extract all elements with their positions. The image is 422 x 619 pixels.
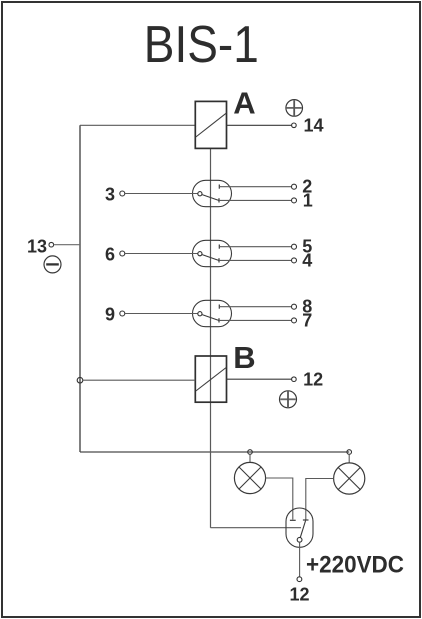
wire: relay A to terminal 14	[227, 124, 292, 126]
wire: junction to relay B coil	[83, 379, 196, 381]
wire: link horizontal into bottom switch	[211, 527, 302, 529]
minus polarity symbol	[44, 256, 61, 273]
wire: bus to relay A coil left	[80, 124, 196, 126]
contact tick upper S1	[218, 185, 220, 189]
svg-text:3: 3	[105, 184, 115, 204]
terminal 5	[292, 244, 297, 249]
lever S3	[202, 315, 219, 321]
lamp L2	[334, 463, 365, 494]
switch contact row 2 (6-5/4)	[105, 237, 312, 271]
svg-text:12: 12	[289, 585, 309, 605]
relay coil A	[195, 101, 226, 148]
wire: 3 to pole	[125, 193, 198, 195]
terminal 7	[292, 318, 297, 323]
lever S4	[300, 521, 305, 538]
svg-text:+220VDC: +220VDC	[306, 552, 404, 579]
wire: 9 to pole	[125, 313, 198, 315]
svg-text:A: A	[233, 86, 255, 121]
terminal 12 (supply)	[297, 577, 302, 582]
svg-text:B: B	[233, 340, 255, 375]
svg-text:12: 12	[303, 370, 323, 390]
wire: junction to lamp 1	[249, 454, 251, 462]
svg-text:14: 14	[304, 116, 324, 136]
contact tick lower S2	[218, 258, 220, 262]
svg-text:BIS-1: BIS-1	[144, 16, 259, 74]
svg-text:7: 7	[302, 310, 312, 330]
wire: upper contact to terminal 8	[219, 306, 291, 308]
node: lamp 2 junction	[347, 450, 352, 455]
wire: upper contact to terminal 5	[219, 246, 291, 248]
terminal 4	[292, 258, 297, 263]
terminal 1	[292, 198, 297, 203]
wire: lamp 2 to bottom switch right contact	[306, 479, 334, 520]
contact tick lower S3	[218, 318, 220, 322]
wire: relay B to terminal 12	[227, 378, 292, 380]
pushbutton switch S4	[286, 508, 313, 547]
contact tick right S4	[303, 519, 309, 521]
svg-text:13: 13	[27, 236, 47, 256]
svg-text:4: 4	[302, 250, 312, 270]
contact tick upper S3	[218, 305, 220, 309]
lever S1	[202, 195, 219, 201]
wire: pole to +220VDC terminal	[299, 542, 301, 577]
wire: terminal 13 to bus	[54, 244, 80, 246]
node: lamp 1 junction	[248, 450, 253, 455]
svg-text:9: 9	[105, 304, 115, 324]
lamp L1	[234, 462, 265, 493]
terminal 12	[292, 377, 297, 382]
pole S4	[297, 537, 302, 542]
wire: lamp 1 to bottom switch left contact	[266, 478, 293, 520]
contact body S2	[193, 240, 232, 266]
contact body S1	[193, 180, 232, 206]
wire: lamps top feed horizontal	[80, 451, 349, 453]
plus polarity symbol (top)	[286, 100, 303, 117]
relay coil B	[195, 356, 226, 402]
pole S2	[198, 252, 202, 256]
contact tick upper S2	[218, 245, 220, 249]
terminal 8	[292, 304, 297, 309]
wire: lower contact to terminal 7	[219, 319, 291, 321]
terminal 2	[292, 184, 297, 189]
switch contact row 1 (3-2/1)	[105, 177, 313, 211]
contact tick lower S1	[218, 198, 220, 202]
wire: upper contact to terminal 2	[219, 186, 291, 188]
wire: mechanical link vertical (relay A to bottom)	[210, 149, 212, 528]
node: bus junction to relay B	[77, 377, 83, 383]
svg-text:6: 6	[105, 244, 115, 264]
wire: lower contact to terminal 1	[219, 199, 291, 201]
wire: lower contact to terminal 4	[219, 259, 291, 261]
svg-text:1: 1	[303, 190, 313, 210]
contact body S3	[193, 300, 232, 326]
contact tick left S4	[290, 519, 296, 521]
terminal 14	[292, 123, 297, 128]
wire: junction to lamp 2	[348, 454, 350, 463]
wire: 6 to pole	[125, 253, 198, 255]
lever S2	[202, 255, 219, 261]
pole S1	[198, 192, 202, 196]
wire: left bus vertical	[79, 125, 81, 452]
plus polarity symbol (relay B)	[280, 391, 297, 408]
switch contact row 3 (9-8/7)	[105, 297, 312, 331]
pole S3	[198, 312, 202, 316]
